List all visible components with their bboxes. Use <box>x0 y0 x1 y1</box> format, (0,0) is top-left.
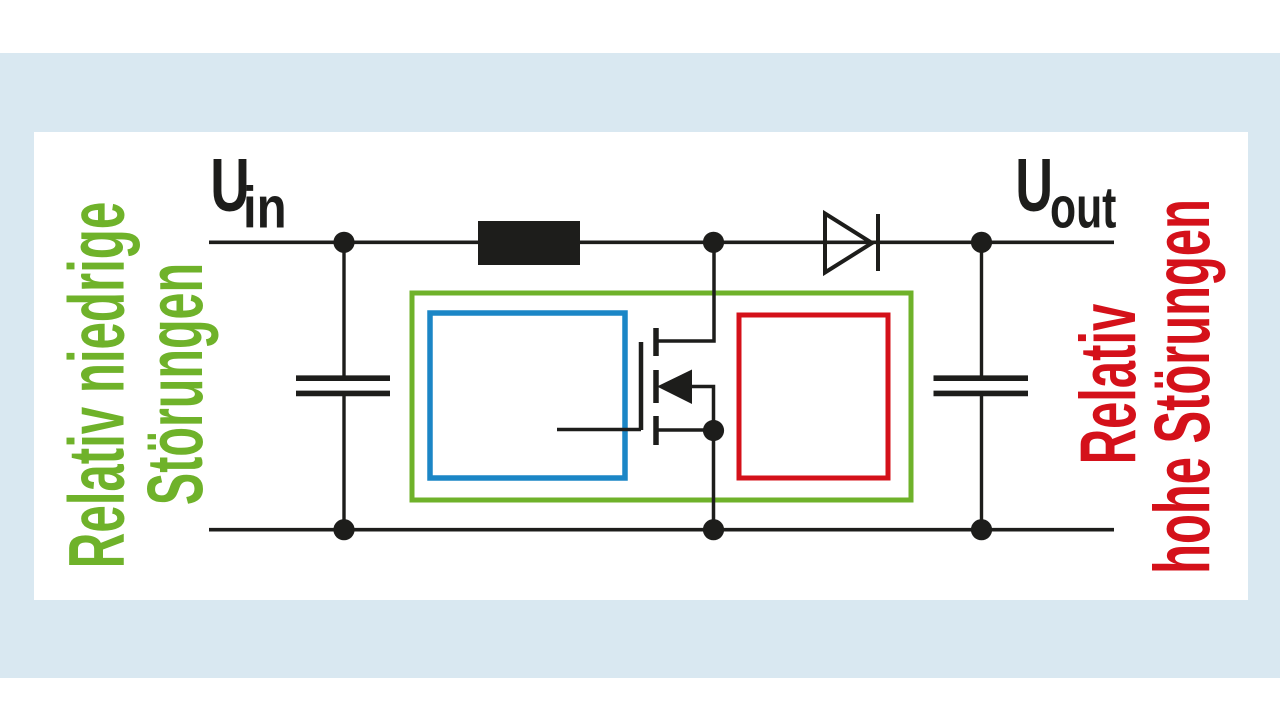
node bottom-left <box>333 519 354 540</box>
diode D1 <box>825 214 878 273</box>
controller outline (green box) <box>412 293 911 500</box>
channel bar top <box>653 328 659 356</box>
capacitor C2 (output) <box>934 242 1029 530</box>
label left green: Relativ niedrige Stoerungen <box>53 202 219 568</box>
wire bottom rail <box>209 528 1114 532</box>
wire top rail <box>209 241 1114 245</box>
svg-text:Störungen: Störungen <box>131 263 219 505</box>
svg-text:out: out <box>1050 175 1116 240</box>
capacitor C1 (input) <box>296 242 390 530</box>
inductor L1 (black body) <box>478 221 580 265</box>
node bottom-right <box>971 519 992 540</box>
node top-right <box>971 232 992 253</box>
label right red: Relativ hohe Stoerungen <box>1064 199 1226 574</box>
source wire <box>656 428 714 432</box>
power stage (red box) <box>739 315 888 478</box>
node top-left <box>333 232 354 253</box>
body arrow <box>657 370 692 405</box>
control IC (blue box) <box>430 313 625 478</box>
svg-text:Relativ niedrige: Relativ niedrige <box>53 202 140 568</box>
gate wire <box>557 428 641 432</box>
white diagram panel <box>34 132 1248 600</box>
transistor Q1 (MOSFET) <box>557 242 714 530</box>
label Uin <box>210 142 286 240</box>
drain wire <box>656 242 714 341</box>
label Uout <box>1015 142 1116 240</box>
channel bar bottom <box>653 416 659 445</box>
gate electrode <box>639 342 644 430</box>
body wire <box>690 387 714 431</box>
node bottom-mid <box>703 519 724 540</box>
svg-text:U: U <box>1015 142 1053 227</box>
svg-text:in: in <box>243 176 287 241</box>
node Q1 source <box>703 420 724 441</box>
channel bar middle <box>653 370 659 403</box>
source drop wire <box>712 430 716 530</box>
svg-text:hohe Störungen: hohe Störungen <box>1138 199 1226 574</box>
node top-mid <box>703 232 724 253</box>
